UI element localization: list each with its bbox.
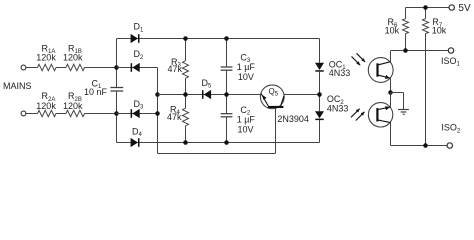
resistor R1B (63, 43, 85, 70)
resistor R2B (63, 91, 85, 117)
svg-text:D4: D4 (132, 126, 143, 138)
node emitter/collector/ground (388, 90, 393, 95)
capacitor C2 (221, 95, 256, 143)
wire to ground (391, 93, 404, 110)
svg-text:1 µF: 1 µF (237, 115, 256, 125)
node C3 top bus (224, 36, 229, 41)
light arrows OC2 (351, 109, 365, 121)
svg-text:120k: 120k (63, 53, 83, 63)
wire OC2 collector up to node (390, 93, 392, 108)
svg-text:D2: D2 (134, 49, 145, 61)
node D3 / anode vertical (155, 111, 160, 116)
resistor R2A (36, 91, 56, 117)
wire base return bottom (158, 153, 276, 155)
wire middle (158, 94, 261, 96)
LED OC2 (315, 94, 348, 120)
ground (398, 110, 409, 115)
svg-text:120k: 120k (63, 101, 83, 111)
phototransistor OC2 (368, 103, 392, 127)
svg-text:120k: 120k (36, 53, 56, 63)
diode D2 (131, 49, 144, 72)
svg-text:D3: D3 (134, 99, 145, 111)
wire top bus (117, 38, 320, 40)
transistor Q1 2N3904 (260, 85, 309, 124)
svg-text:D1: D1 (134, 22, 145, 34)
svg-text:10 nF: 10 nF (84, 87, 108, 97)
resistor R6 (385, 8, 409, 51)
light arrows OC1 (352, 53, 366, 65)
resistor R7 (423, 8, 447, 146)
diode D3 (131, 99, 144, 118)
wire OC1 collector up (390, 51, 392, 62)
terminal 5V (449, 3, 471, 14)
wire 5V rail (406, 7, 450, 9)
wire LED vertical middle (319, 72, 321, 112)
svg-text:10V: 10V (238, 125, 254, 135)
terminal MAINS bottom (21, 111, 26, 116)
node R7 / ISO2 (423, 143, 428, 148)
svg-text:10k: 10k (432, 25, 447, 35)
svg-text:ISO1: ISO1 (441, 56, 461, 68)
diode D4 (131, 126, 143, 147)
wire D2/D3 anode vertical (157, 68, 159, 154)
resistor R3 (168, 39, 189, 95)
node R3 top bus (183, 36, 188, 41)
svg-text:1 µF: 1 µF (237, 62, 256, 72)
diode D1 (131, 22, 144, 43)
svg-text:4N33: 4N33 (327, 104, 349, 114)
wire top rail from MAINS terminal to bridge (26, 67, 117, 69)
node R3/R4 middle (183, 92, 188, 97)
svg-text:2N3904: 2N3904 (277, 114, 309, 124)
terminal ISO2 (441, 123, 461, 149)
node top rail / bridge junction (114, 65, 119, 70)
wire bottom bus (117, 142, 320, 144)
node R6 / ISO1 (403, 48, 408, 53)
svg-text:MAINS: MAINS (3, 81, 32, 91)
node R4 bottom bus (183, 140, 188, 145)
node R7 / 5V rail (423, 5, 428, 10)
wire bottom rail from MAINS terminal to bridge (26, 113, 117, 115)
node Q5 collector / LEDs (317, 92, 322, 97)
svg-text:D5: D5 (202, 78, 213, 90)
phototransistor OC1 (368, 58, 393, 83)
wire ISO1 (391, 50, 449, 52)
svg-text:47k: 47k (168, 64, 183, 74)
wire LED vertical bottom (319, 120, 321, 143)
wire Q5 collector to LED node (284, 94, 319, 96)
capacitor C3 (221, 39, 256, 95)
diode D5 (202, 78, 213, 99)
svg-text:10k: 10k (385, 25, 400, 35)
capacitor C1 (84, 78, 123, 97)
node middle wire / anode vertical (155, 92, 160, 97)
node C3/C2 middle (224, 92, 229, 97)
node bottom rail / bridge junction (114, 111, 119, 116)
terminal MAINS top (21, 65, 26, 70)
LED OC1 (315, 59, 350, 78)
svg-text:ISO2: ISO2 (441, 123, 461, 135)
wire left bridge vertical (116, 39, 118, 143)
wire OC1 emitter down (390, 78, 392, 92)
wire ISO2 (391, 145, 448, 147)
resistor R1A (36, 43, 56, 70)
svg-text:10V: 10V (238, 72, 254, 82)
svg-text:120k: 120k (36, 101, 56, 111)
wire Q5 base lead (275, 108, 277, 154)
svg-text:4N33: 4N33 (329, 68, 351, 78)
wire OC2 emitter down (390, 123, 392, 146)
node C2 bottom bus (224, 140, 229, 145)
wire D3 branch (117, 113, 158, 115)
wire LED vertical top (319, 39, 321, 63)
wire D2 branch (117, 67, 158, 69)
svg-text:47k: 47k (167, 112, 182, 122)
terminal ISO1 (441, 48, 461, 68)
svg-text:5V: 5V (458, 3, 471, 14)
resistor R4 (167, 95, 189, 143)
